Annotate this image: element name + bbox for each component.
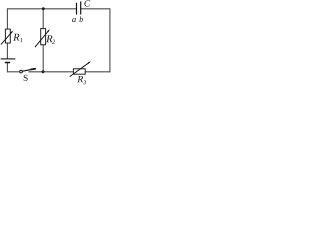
label R3 [77, 76, 83, 82]
node junction dot bottom of R2 branch [42, 70, 45, 73]
wire left edge upper [6, 8, 8, 29]
wire bottom-middle segment [28, 71, 73, 73]
wire R2 branch upper [42, 9, 44, 29]
wire bottom-left segment [7, 71, 19, 73]
label S [24, 75, 28, 81]
wire top-left segment [7, 8, 76, 10]
switch S blade [23, 69, 36, 72]
resistor R1 box [5, 29, 10, 43]
label C [84, 0, 90, 6]
wire left edge middle [6, 43, 8, 59]
resistor R3 box [73, 69, 85, 74]
battery positive plate long [1, 58, 16, 60]
battery negative plate short [5, 62, 10, 64]
switch S left terminal circle [20, 70, 23, 73]
label b capacitor pin [79, 16, 82, 22]
wire bottom-right segment [85, 71, 110, 73]
node junction dot top of R2 branch [42, 7, 45, 10]
resistor R2 box [41, 29, 46, 45]
capacitor C plate b right [80, 1, 82, 14]
resistor R2 arrow [35, 30, 49, 47]
label R1 [13, 34, 19, 41]
resistor R1 arrow [1, 32, 12, 45]
label R2 [46, 35, 52, 42]
label a capacitor pin [72, 18, 76, 22]
wire left edge lower [6, 63, 8, 73]
switch S blade tip thick segment [31, 68, 36, 71]
capacitor C plate a left [76, 3, 78, 15]
wire right edge [109, 8, 111, 72]
wire R2 branch lower [42, 45, 44, 72]
wire top-right segment [81, 8, 110, 10]
resistor R3 arrow [70, 62, 90, 76]
